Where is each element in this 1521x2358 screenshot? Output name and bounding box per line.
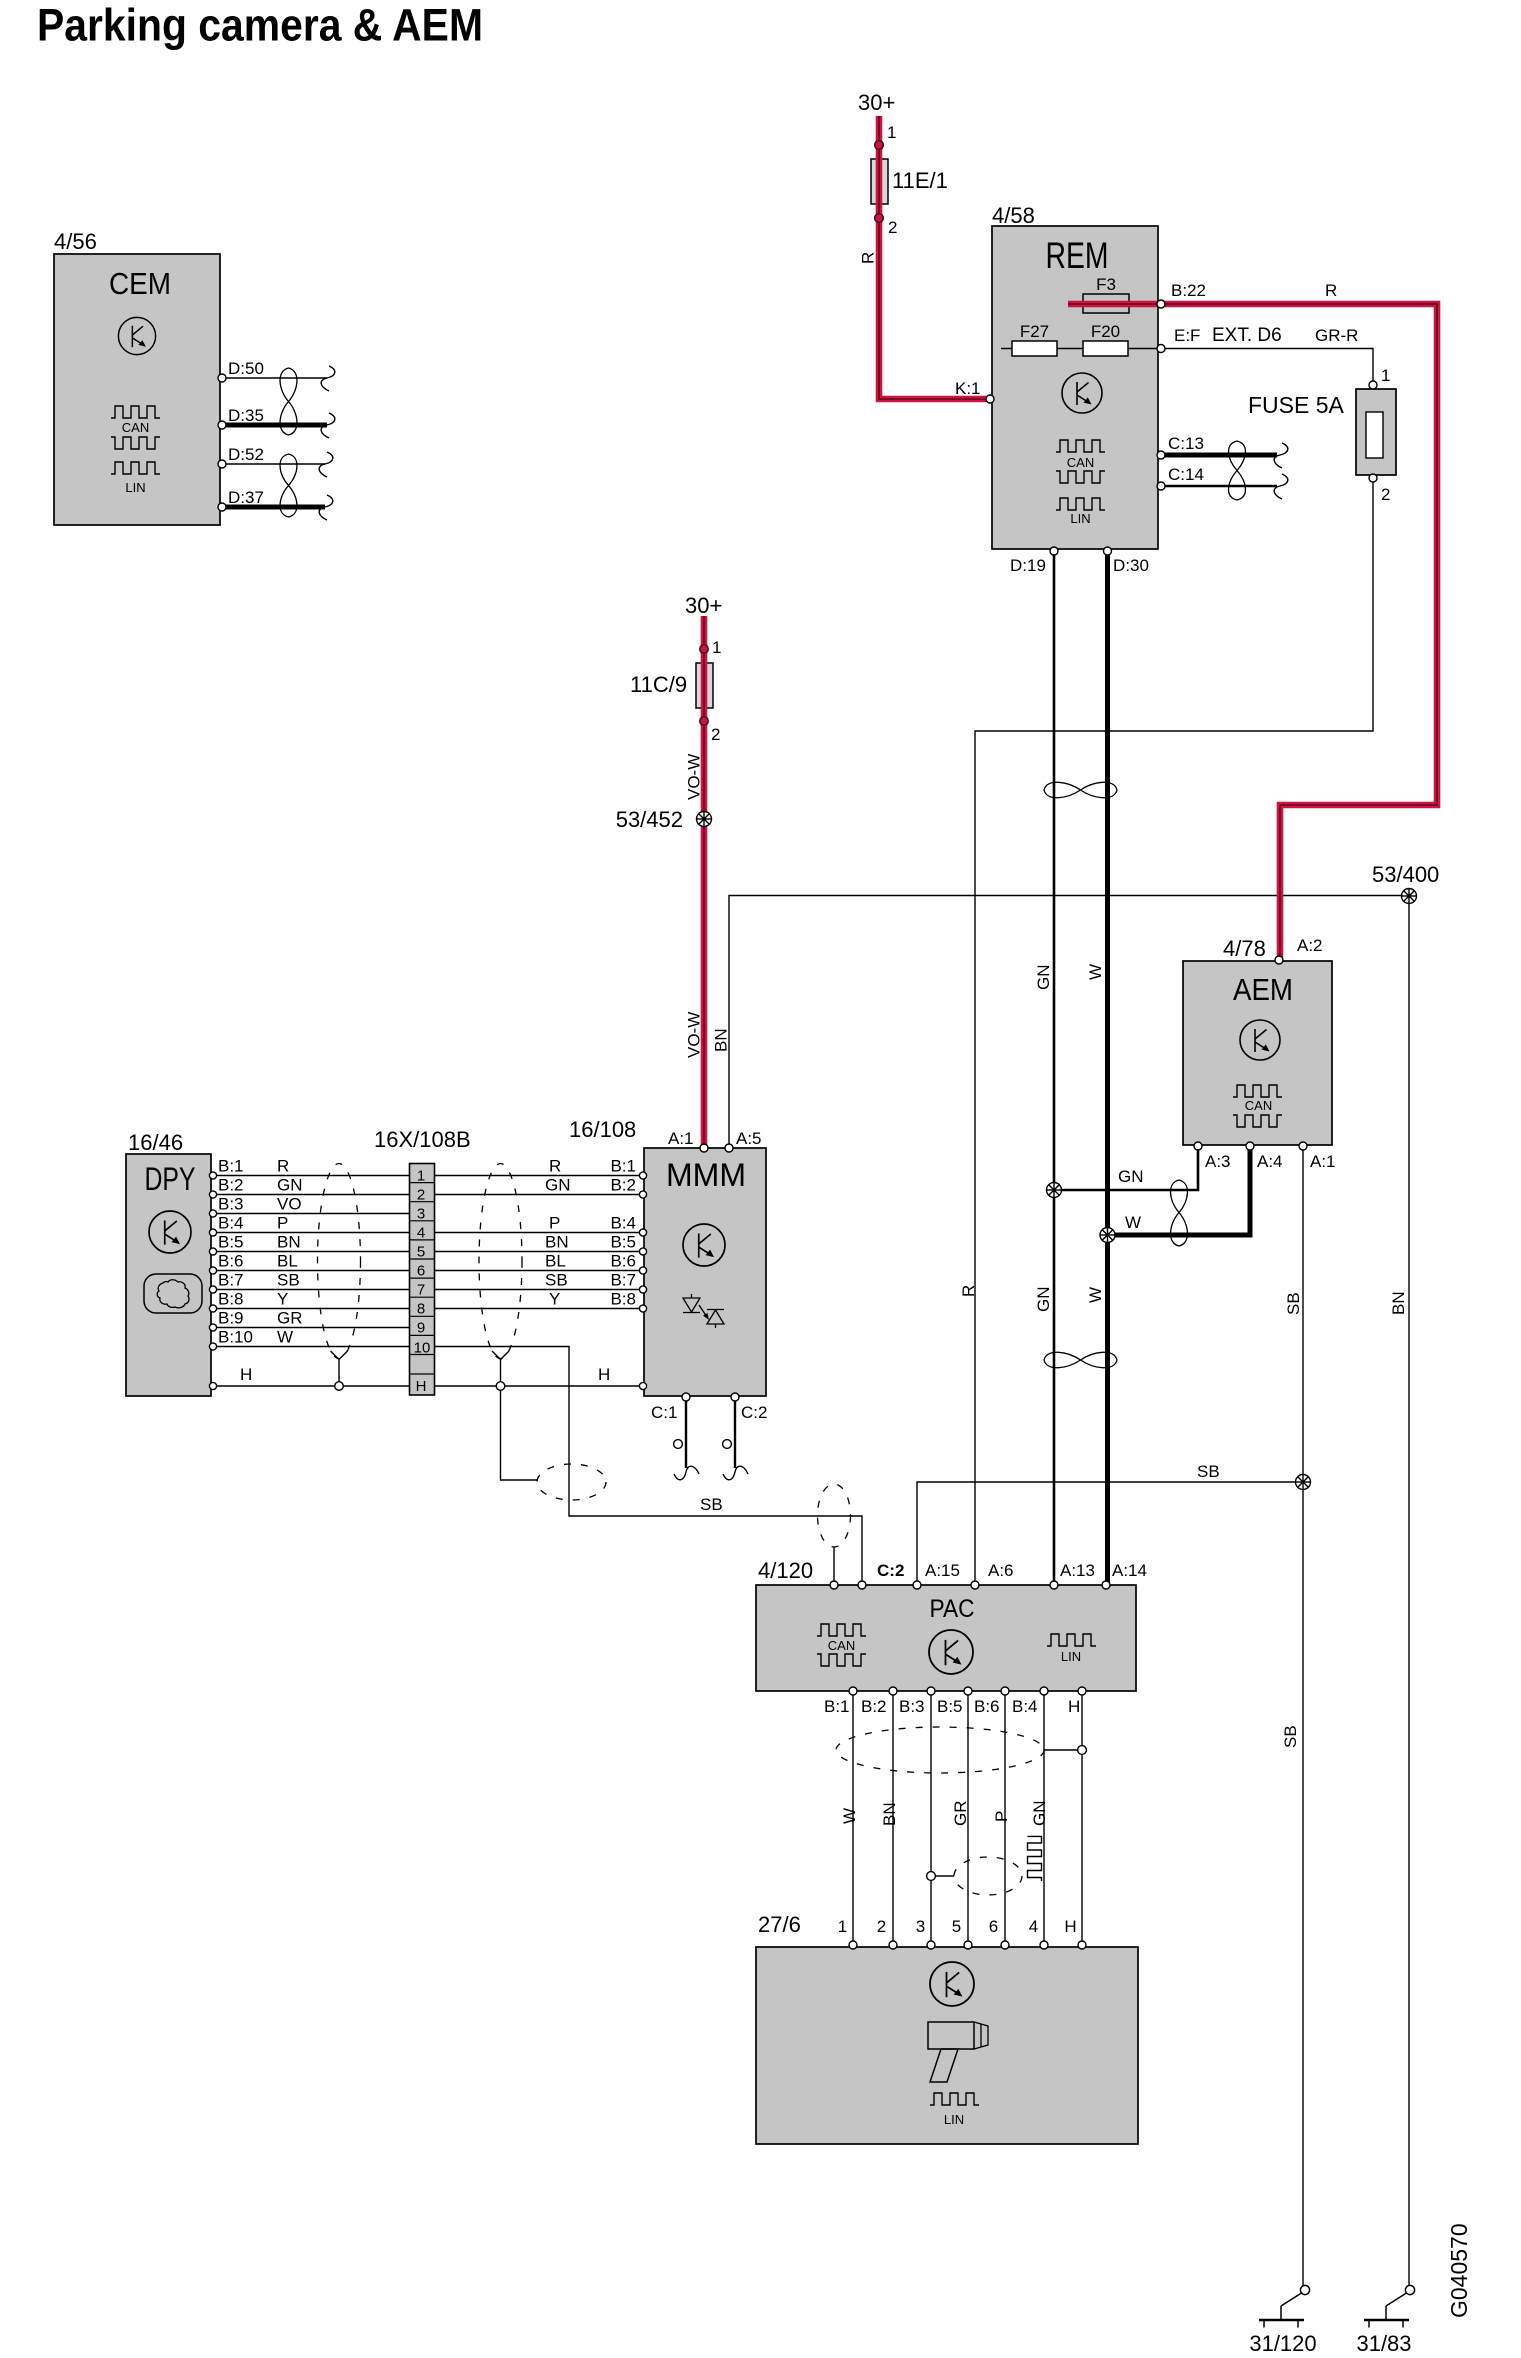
svg-text:R: R — [959, 1285, 978, 1297]
svg-text:16/46: 16/46 — [128, 1130, 183, 1155]
audio module AEM 4/78 — [1183, 936, 1332, 1145]
ground 31/120 — [1249, 2285, 1316, 2356]
wire W branch to AEM A:4 — [1108, 1149, 1251, 1235]
svg-text:R: R — [1325, 281, 1337, 300]
wire-break symbol D:50 — [321, 366, 335, 391]
svg-text:BN: BN — [277, 1233, 301, 1252]
svg-text:B:7: B:7 — [610, 1271, 636, 1290]
CEM CAN icon — [111, 406, 160, 449]
splice node 53/400 — [1372, 862, 1439, 904]
pin camera 6 — [989, 1917, 1009, 1949]
splice on W wire — [1100, 1228, 1115, 1243]
svg-text:EXT. D6: EXT. D6 — [1212, 325, 1282, 346]
pin FUSE 5A 1 — [1369, 366, 1390, 389]
svg-text:4/56: 4/56 — [54, 229, 97, 254]
svg-text:SB: SB — [1197, 1462, 1220, 1481]
pin PAC shield — [830, 1581, 838, 1589]
AEM control-unit symbol — [1240, 1020, 1280, 1060]
pin DPY B:5 — [209, 1233, 300, 1256]
svg-text:GN: GN — [1034, 965, 1053, 991]
svg-text:B:4: B:4 — [1012, 1697, 1038, 1716]
wire SB from PAC A:15 to node 53/400 branch — [917, 1462, 1303, 1583]
wire shield drain to cable shield — [501, 1390, 539, 1480]
pin PAC A:14 — [1102, 1561, 1147, 1589]
svg-text:6: 6 — [989, 1917, 998, 1936]
svg-text:31/120: 31/120 — [1249, 2331, 1316, 2356]
pin REM C:13 — [1157, 434, 1204, 459]
svg-text:CAN: CAN — [828, 1638, 855, 1653]
svg-text:B:1: B:1 — [218, 1157, 244, 1176]
multimedia module MMM 16/108 — [569, 1117, 766, 1396]
REM control-unit symbol — [1062, 373, 1102, 413]
svg-text:LIN: LIN — [1070, 511, 1090, 526]
svg-text:A:6: A:6 — [988, 1561, 1014, 1580]
svg-text:1: 1 — [838, 1917, 847, 1936]
svg-text:W: W — [1125, 1213, 1141, 1232]
svg-text:R: R — [859, 252, 878, 264]
pin DPY B:2 — [209, 1176, 302, 1199]
DPY display icon — [144, 1274, 202, 1313]
svg-text:P: P — [992, 1811, 1011, 1822]
svg-text:BL: BL — [545, 1252, 566, 1271]
svg-text:B:2: B:2 — [610, 1176, 636, 1195]
fuse 11E/1 pin 2 — [875, 214, 898, 237]
svg-text:F20: F20 — [1091, 322, 1120, 341]
pin PAC B:2 — [861, 1687, 897, 1716]
svg-text:9: 9 — [417, 1320, 425, 1337]
svg-text:31/83: 31/83 — [1356, 2331, 1411, 2356]
svg-text:GR-R: GR-R — [1315, 326, 1358, 345]
PAC LIN icon — [1047, 1634, 1096, 1664]
svg-text:D:30: D:30 — [1113, 556, 1149, 575]
svg-text:FUSE 5A: FUSE 5A — [1248, 392, 1345, 418]
svg-text:4: 4 — [1029, 1917, 1038, 1936]
wire connector pin8 Y to MMM B:8 — [435, 1308, 645, 1310]
wire-break symbol D:35 — [321, 413, 335, 438]
camera LIN icon — [930, 2093, 979, 2127]
wire connector pin5 BN to MMM B:5 — [435, 1251, 645, 1253]
cable shield around SB wire (MMM side) — [537, 1464, 606, 1500]
svg-text:4/78: 4/78 — [1223, 936, 1266, 961]
svg-text:GN: GN — [1118, 1167, 1144, 1186]
wire DPY B:8 Y — [215, 1308, 435, 1310]
splice on SB wire — [1296, 1475, 1311, 1490]
pin DPY H — [209, 1382, 216, 1389]
svg-text:A:13: A:13 — [1060, 1561, 1095, 1580]
svg-text:5: 5 — [952, 1917, 961, 1936]
pin PAC H — [1068, 1687, 1086, 1716]
wire SB from connector pin10 to PAC C:2 — [435, 1347, 863, 1584]
svg-text:11E/1: 11E/1 — [892, 168, 948, 193]
svg-text:B:22: B:22 — [1171, 281, 1206, 300]
cable shield MMM side — [479, 1164, 522, 1383]
wire-break symbol C:2 — [723, 1466, 748, 1480]
svg-text:B:8: B:8 — [218, 1290, 244, 1309]
svg-text:B:5: B:5 — [218, 1233, 244, 1252]
svg-text:B:2: B:2 — [218, 1176, 244, 1195]
battery feed 30+ (middle) — [685, 593, 722, 618]
twisted-pair symbol GN/W lower — [1044, 1352, 1117, 1367]
wire CEM D:52 (LIN) — [224, 463, 325, 465]
svg-text:A:2: A:2 — [1297, 936, 1323, 955]
ring terminal C:2 — [723, 1440, 732, 1449]
svg-text:BN: BN — [1389, 1291, 1408, 1315]
svg-text:W: W — [840, 1808, 859, 1824]
svg-text:53/400: 53/400 — [1372, 862, 1439, 887]
wire CAN C:14 from REM — [1165, 485, 1277, 487]
svg-text:VO: VO — [277, 1195, 302, 1214]
svg-text:H: H — [240, 1365, 252, 1384]
wire PAC H to camera pin H — [1081, 1693, 1083, 1944]
svg-text:B:5: B:5 — [610, 1233, 636, 1252]
pin camera H — [1064, 1917, 1086, 1949]
DPY control-unit symbol — [149, 1211, 191, 1253]
svg-text:D:19: D:19 — [1010, 556, 1046, 575]
pin MMM B:7 — [545, 1271, 647, 1294]
svg-text:4/120: 4/120 — [758, 1558, 813, 1583]
wire-break symbol D:52 — [319, 452, 333, 477]
battery feed 30+ (left) — [858, 90, 895, 115]
svg-text:GN: GN — [545, 1176, 571, 1195]
wire connector pin6 BL to MMM B:6 — [435, 1270, 645, 1272]
REM CAN icon — [1056, 440, 1105, 483]
svg-text:REM: REM — [1046, 235, 1109, 276]
pin CEM D:37 — [218, 488, 264, 511]
svg-text:30+: 30+ — [858, 90, 895, 115]
svg-text:6: 6 — [417, 1263, 425, 1280]
REM LIN icon — [1056, 498, 1105, 526]
AEM CAN icon — [1233, 1085, 1282, 1127]
wire connector pin4 P to MMM B:4 — [435, 1232, 645, 1234]
svg-text:F3: F3 — [1096, 275, 1116, 294]
pin PAC B:1 — [824, 1687, 857, 1716]
svg-text:A:14: A:14 — [1112, 1561, 1147, 1580]
svg-text:11C/9: 11C/9 — [630, 672, 687, 697]
svg-text:A:3: A:3 — [1205, 1152, 1231, 1171]
pin camera 1 — [838, 1917, 857, 1949]
svg-text:C:2: C:2 — [741, 1403, 767, 1422]
pin DPY B:4 — [209, 1214, 288, 1237]
wire DPY B:4 P — [215, 1232, 435, 1234]
svg-text:H: H — [1068, 1697, 1080, 1716]
wire R from REM B:22 to AEM A:2 — [1068, 281, 1437, 957]
wire R from FUSE 5A pin 2 to PAC A:6 — [959, 482, 1373, 1583]
pin MMM C:2 — [731, 1393, 767, 1422]
svg-text:BN: BN — [712, 1028, 731, 1052]
REM fuse F3 — [1083, 275, 1129, 313]
svg-text:C:14: C:14 — [1168, 465, 1204, 484]
splice node 53/452 — [616, 807, 712, 832]
PAC CAN icon — [817, 1624, 866, 1666]
wire connector pin2 GN to MMM B:2 — [435, 1194, 645, 1196]
svg-text:D:50: D:50 — [228, 359, 264, 378]
pin AEM A:3 — [1194, 1142, 1231, 1171]
pin PAC B:3 — [899, 1687, 935, 1716]
svg-text:D:37: D:37 — [228, 488, 264, 507]
svg-text:G040570: G040570 — [1446, 2223, 1472, 2318]
pin CEM D:52 — [218, 445, 264, 468]
svg-text:B:7: B:7 — [218, 1271, 244, 1290]
svg-text:H: H — [598, 1365, 610, 1384]
pin REM E:F — [1157, 325, 1358, 353]
wire GN branch to AEM A:3 — [1054, 1149, 1198, 1190]
REM internal wire through F27 F20 — [1001, 348, 1160, 350]
wire W from REM D:30 to PAC A:14 — [1086, 553, 1108, 1583]
svg-text:4: 4 — [417, 1225, 425, 1242]
svg-text:Parking camera & AEM: Parking camera & AEM — [37, 0, 483, 51]
wire PAC B:2 BN to camera pin 2 — [880, 1693, 899, 1944]
svg-text:GN: GN — [277, 1176, 303, 1195]
shield junction on camera H wire — [1078, 1746, 1087, 1755]
svg-text:BL: BL — [277, 1252, 298, 1271]
svg-text:8: 8 — [417, 1301, 425, 1318]
cable shield DPY side — [318, 1164, 361, 1383]
camera control-unit symbol — [930, 1962, 974, 2006]
pin MMM B:2 — [545, 1176, 647, 1199]
control module CEM 4/56 — [54, 229, 220, 525]
svg-text:Y: Y — [277, 1290, 288, 1309]
pin REM C:14 — [1157, 465, 1204, 490]
svg-text:C:2: C:2 — [877, 1561, 904, 1580]
ring terminal C:1 — [674, 1440, 683, 1449]
pin PAC B:6 — [974, 1687, 1009, 1716]
wire CEM D:50 (CAN) — [224, 377, 327, 379]
wire PAC B:3 to camera pin 3 — [930, 1693, 932, 1944]
CEM control-unit symbol — [118, 317, 155, 354]
svg-text:B:3: B:3 — [899, 1697, 925, 1716]
svg-text:3: 3 — [916, 1917, 925, 1936]
wire CEM D:37 (LIN) — [224, 505, 325, 510]
svg-text:B:4: B:4 — [610, 1214, 636, 1233]
wire CAN C:13 from REM — [1165, 453, 1277, 458]
pin camera 4 — [1029, 1917, 1048, 1949]
MMM C:1 stub wire — [685, 1401, 687, 1468]
wire DPY B:9 GR — [215, 1327, 435, 1329]
camera icon — [928, 2022, 988, 2082]
svg-text:R: R — [277, 1157, 289, 1176]
cable shield around camera pair 5/6 — [954, 1857, 1022, 1895]
svg-text:B:1: B:1 — [610, 1157, 636, 1176]
MMM C:2 stub wire — [734, 1401, 736, 1468]
pin MMM A:5 — [725, 1129, 762, 1152]
svg-text:LIN: LIN — [125, 480, 145, 495]
svg-text:B:9: B:9 — [218, 1309, 244, 1328]
fuse 11E/1 body — [871, 159, 948, 204]
svg-text:1: 1 — [1381, 366, 1390, 385]
pin DPY B:7 — [209, 1271, 299, 1294]
svg-text:B:6: B:6 — [610, 1252, 636, 1271]
svg-text:1: 1 — [712, 638, 721, 657]
relay/fuse module REM 4/58 — [992, 203, 1158, 549]
pin AEM A:4 — [1246, 1142, 1283, 1171]
svg-text:H: H — [416, 1378, 427, 1395]
twisted-pair symbol CEM D:50/D:35 — [280, 368, 297, 435]
connector 16X/108B — [374, 1127, 471, 1395]
svg-text:B:4: B:4 — [218, 1214, 244, 1233]
wire DPY B:2 GN — [215, 1194, 435, 1196]
svg-text:P: P — [549, 1214, 560, 1233]
wire-break symbol C:13 — [1274, 443, 1288, 468]
svg-text:SB: SB — [277, 1271, 300, 1290]
wire connector pin1 R to MMM B:1 — [435, 1175, 645, 1177]
svg-text:C:13: C:13 — [1168, 434, 1204, 453]
wire DPY B:3 VO — [215, 1213, 435, 1215]
pin FUSE 5A 2 — [1369, 474, 1390, 504]
MMM control-unit symbol — [683, 1224, 725, 1266]
svg-text:GN: GN — [1034, 1287, 1053, 1313]
pin PAC B:4 — [1012, 1687, 1048, 1716]
wire PAC B:1 W to camera pin 1 — [840, 1693, 859, 1944]
wire R battery feed through fuse 11E/1 to REM K:1 — [859, 116, 987, 399]
svg-text:C:1: C:1 — [651, 1403, 677, 1422]
pin MMM H — [639, 1382, 646, 1389]
wire DPY B:5 BN — [215, 1251, 435, 1253]
pin PAC C:2 — [858, 1561, 904, 1589]
pin REM K:1 — [955, 379, 994, 403]
pin PAC A:6 — [971, 1561, 1014, 1589]
pin REM D:30 — [1104, 547, 1149, 575]
wire DPY B:10 W — [215, 1346, 435, 1348]
pin MMM B:4 — [549, 1214, 647, 1237]
wire GN from REM D:19 to PAC A:13 — [1034, 553, 1054, 1583]
pin DPY B:8 — [209, 1290, 288, 1313]
pin PAC B:5 — [937, 1687, 972, 1716]
pin PAC A:15 — [913, 1561, 960, 1589]
pin CEM D:50 — [218, 359, 264, 382]
fuse 11C/9 body — [630, 663, 713, 708]
wire DPY B:7 SB — [215, 1289, 435, 1291]
pin AEM A:1 — [1299, 1142, 1336, 1171]
pin REM D:19 — [1010, 547, 1058, 575]
svg-text:DPY: DPY — [145, 1161, 196, 1197]
svg-text:E:F: E:F — [1174, 326, 1200, 345]
svg-text:F27: F27 — [1020, 322, 1049, 341]
fuse 11C/9 pin 1 — [700, 638, 722, 657]
svg-text:W: W — [1086, 1287, 1105, 1303]
svg-text:SB: SB — [1284, 1292, 1303, 1315]
svg-text:P: P — [277, 1214, 288, 1233]
svg-text:VO-W: VO-W — [685, 1012, 704, 1058]
ground 31/83 — [1356, 2285, 1414, 2356]
page title — [37, 0, 483, 51]
svg-text:A:4: A:4 — [1257, 1152, 1283, 1171]
svg-text:B:8: B:8 — [610, 1290, 636, 1309]
svg-text:CEM: CEM — [109, 266, 171, 301]
svg-text:5: 5 — [417, 1244, 425, 1261]
wire-break symbol C:14 — [1274, 474, 1288, 499]
svg-text:16/108: 16/108 — [569, 1117, 636, 1142]
cable shield around SB wire (PAC side) — [818, 1484, 851, 1547]
wire BN from MMM A:5 via node 53/400 to ground 31/83 — [712, 896, 1410, 2291]
twisted-pair symbol CEM D:52/D:37 — [280, 454, 297, 517]
svg-text:D:35: D:35 — [228, 406, 264, 425]
pin MMM C:1 — [651, 1393, 690, 1422]
wire PAC B:4 GN to camera pin 4 — [1030, 1693, 1049, 1944]
splice on GN wire — [1047, 1183, 1062, 1198]
display module DPY 16/46 — [126, 1130, 211, 1396]
svg-text:R: R — [549, 1157, 561, 1176]
camera cable shield — [836, 1727, 1077, 1773]
svg-text:53/452: 53/452 — [616, 807, 683, 832]
svg-text:K:1: K:1 — [955, 379, 981, 398]
svg-text:2: 2 — [417, 1187, 425, 1204]
svg-text:MMM: MMM — [666, 1157, 746, 1193]
svg-text:VO-W: VO-W — [685, 754, 704, 800]
svg-text:2: 2 — [888, 218, 897, 237]
MMM diode icons — [683, 1294, 724, 1328]
svg-text:BN: BN — [880, 1802, 899, 1826]
pin DPY B:6 — [209, 1252, 297, 1275]
PAC control-unit symbol — [929, 1630, 973, 1674]
twisted-pair symbol REM C:13/C:14 — [1229, 441, 1246, 500]
svg-text:A:1: A:1 — [1310, 1152, 1336, 1171]
pin DPY B:1 — [209, 1157, 289, 1180]
svg-text:LIN: LIN — [944, 2112, 964, 2127]
twisted-pair symbol GN/W branch — [1171, 1180, 1188, 1246]
fuse 11E/1 pin 1 — [875, 123, 897, 149]
svg-text:CAN: CAN — [1067, 455, 1094, 470]
svg-text:D:52: D:52 — [228, 445, 264, 464]
svg-text:A:5: A:5 — [736, 1129, 762, 1148]
pin MMM B:5 — [545, 1233, 647, 1256]
svg-text:Y: Y — [549, 1290, 560, 1309]
svg-text:BN: BN — [545, 1233, 569, 1252]
wire shield to PAC shield pin — [833, 1547, 835, 1583]
twisted-pair symbol GN/W upper — [1044, 782, 1117, 797]
svg-text:3: 3 — [417, 1206, 425, 1223]
svg-text:27/6: 27/6 — [758, 1912, 801, 1937]
fuse 11C/9 pin 2 — [700, 717, 721, 744]
wire PAC B:5 GR to camera pin 5 — [951, 1693, 970, 1944]
svg-text:A:15: A:15 — [925, 1561, 960, 1580]
svg-text:10: 10 — [414, 1340, 431, 1357]
svg-text:B:6: B:6 — [974, 1697, 1000, 1716]
pin MMM B:1 — [549, 1157, 647, 1180]
svg-text:PAC: PAC — [930, 1595, 975, 1623]
pin camera 2 — [877, 1917, 897, 1949]
pin PAC A:13 — [1050, 1561, 1095, 1589]
svg-text:B:3: B:3 — [218, 1195, 244, 1214]
svg-text:16X/108B: 16X/108B — [374, 1127, 471, 1152]
svg-text:30+: 30+ — [685, 593, 722, 618]
pin CEM D:35 — [218, 406, 264, 429]
svg-text:2: 2 — [711, 725, 720, 744]
svg-text:B:2: B:2 — [861, 1697, 887, 1716]
svg-text:SB: SB — [1281, 1725, 1300, 1748]
wire-break symbol D:37 — [319, 495, 333, 520]
wire H from DPY to MMM — [215, 1365, 641, 1386]
wire SB from AEM A:1 to ground 31/120 — [1281, 1149, 1303, 2290]
svg-text:AEM: AEM — [1233, 972, 1293, 1007]
shield junction on H wire (MMM) — [496, 1382, 505, 1391]
shield tap on camera wire 3 — [927, 1872, 954, 1881]
svg-text:SB: SB — [545, 1271, 568, 1290]
wire PAC B:6 P to camera pin 6 — [992, 1693, 1011, 1944]
wire DPY B:6 BL — [215, 1270, 435, 1272]
pin AEM A:2 — [1275, 936, 1323, 964]
wire VO-W battery feed through fuse 11C/9 to MMM A:1 — [685, 616, 705, 1146]
wire DPY B:1 R to connector — [215, 1175, 435, 1177]
svg-text:B:6: B:6 — [218, 1252, 244, 1271]
pin MMM A:1 — [668, 1129, 708, 1152]
pulse signal symbol on wire 4 — [1028, 1836, 1042, 1881]
REM fuse F20 — [1083, 322, 1128, 356]
svg-text:4/58: 4/58 — [992, 203, 1035, 228]
svg-text:GR: GR — [951, 1801, 970, 1827]
drawing number G040570 — [1446, 2223, 1472, 2318]
svg-text:CAN: CAN — [1245, 1098, 1272, 1113]
parking assist camera module PAC 4/120 — [756, 1558, 1136, 1691]
